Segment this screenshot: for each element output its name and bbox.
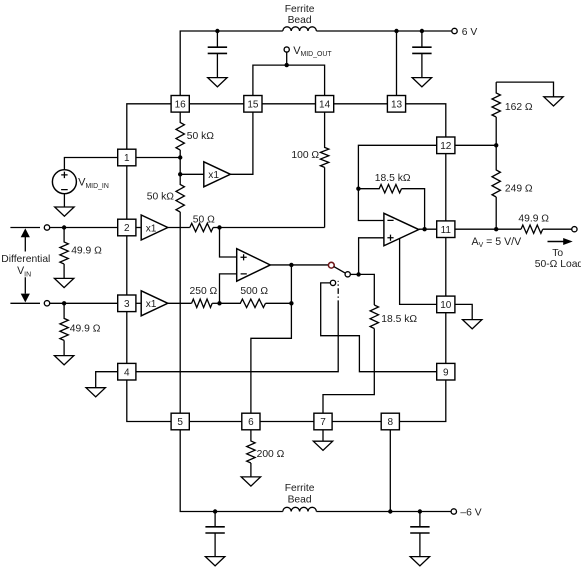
op-amp U2 (output power stage) <box>384 213 419 246</box>
terminal VMID_OUT <box>284 47 289 52</box>
terminal input VIN- (lower) <box>44 301 49 306</box>
svg-text:Differential: Differential <box>1 254 50 265</box>
wire OPS disable to pin 10 <box>400 238 437 304</box>
junction rail at bypass cap C3 <box>213 509 217 513</box>
wire 50 ohm to node A <box>213 227 219 229</box>
ground below VMID_IN <box>55 207 74 216</box>
wire pin 4 to ground (left) <box>96 372 118 388</box>
wire pin 13 to +6V rail <box>396 31 398 96</box>
switch throw contact (to OPS +) <box>345 272 350 277</box>
pin 14 <box>316 96 334 113</box>
wire pin 4 down to pin 5 <box>127 380 171 422</box>
ground below C2 <box>412 78 431 87</box>
terminal output to load <box>572 227 577 232</box>
ground below C4 <box>410 557 429 566</box>
wire pin 11 to 49.9 ohm output <box>455 228 521 230</box>
ground below C3 <box>205 557 224 566</box>
differential VIN double-headed arrow <box>21 228 30 302</box>
resistor R 200 ohm (below pin 6) <box>247 430 255 477</box>
pin 2 <box>118 219 136 236</box>
terminal input VIN+ (upper) <box>44 225 49 230</box>
resistor R 249 ohm <box>492 145 500 229</box>
resistor R 49.9 ohm (lower input termination) <box>60 303 68 355</box>
junction feedback node of middle op-amp <box>289 301 293 305</box>
wire pin 12 to pin 11 <box>445 154 447 221</box>
junction node B (250/500 ohm at op-amp -) <box>217 301 221 305</box>
svg-text:250 Ω: 250 Ω <box>190 286 218 297</box>
wire pin-16 row to left column corner <box>127 104 171 149</box>
pin 6 <box>242 413 260 430</box>
wire x1 output to 250 ohm <box>168 302 192 304</box>
resistor R 50 ohm <box>190 223 213 231</box>
ground right of pin 10 <box>463 320 482 329</box>
wire pin 1 to divider column <box>136 157 180 159</box>
wire pin 3 to x1 input <box>136 302 141 304</box>
wire pin 7 to pin 8 <box>332 421 381 423</box>
resistor R 18.5 kohm (feedback) <box>358 185 424 230</box>
junction rail at pin 8 column <box>388 509 392 513</box>
wire pin 13 to pin 12 <box>406 104 446 137</box>
wire VMID_OUT stub down <box>286 52 288 65</box>
wire lower input to pin 3 <box>50 302 118 304</box>
wire pin 10 to pin 9 <box>445 313 447 364</box>
ground below upper 49.9 ohm <box>54 278 73 287</box>
source VMID_IN (sine/dc source circle) <box>52 170 76 194</box>
wire pin 3 to pin 4 <box>126 312 128 364</box>
wire +6V rail right segment <box>316 30 451 32</box>
resistor R 250 ohm <box>192 299 213 307</box>
wire op-amp output to switch pole <box>270 264 328 266</box>
wire pin 2 to x1 input <box>136 227 141 229</box>
resistor R 162 ohm <box>492 82 500 145</box>
svg-text:Ferrite: Ferrite <box>285 483 315 494</box>
svg-text:49.9 Ω: 49.9 Ω <box>518 214 549 225</box>
wire pin 10 to ground (right) <box>455 304 472 319</box>
terminal -6V <box>451 509 456 514</box>
capacitor C1 (top left bypass) <box>216 31 218 47</box>
svg-text:x1: x1 <box>146 223 157 234</box>
junction switch output node <box>356 272 360 276</box>
wire switch node to 18.5 kohm (vertical) <box>359 274 375 305</box>
wire pin 2 to pin 3 <box>126 236 128 295</box>
wire pin 14 to pin 13 <box>334 103 388 105</box>
wire -6V rail right segment <box>316 511 451 513</box>
wire pin 11 to pin 10 <box>445 238 447 297</box>
svg-text:162 Ω: 162 Ω <box>505 102 533 113</box>
capacitor C4 (bottom right bypass) <box>419 512 421 527</box>
wire node A down to op-amp + input <box>220 228 237 258</box>
ground left of pin 4 <box>86 388 105 397</box>
pin 7 <box>314 413 332 430</box>
wire VMID_IN bottom to ground <box>63 194 65 207</box>
junction on rail at bypass cap C1 <box>215 29 219 33</box>
wire pin 15 to pin 14 <box>262 103 316 105</box>
junction on rail at bypass cap C2 <box>420 29 424 33</box>
switch pole contact (red) <box>328 262 334 268</box>
junction node A (50 ohm / 100 ohm / op-amp +) <box>217 225 221 229</box>
pin 9 <box>437 363 455 380</box>
ground below 200 ohm <box>241 477 260 486</box>
ferrite bead FB2 (bottom) <box>283 507 317 511</box>
junction OPS feedback node <box>356 187 360 191</box>
pin 12 <box>437 137 455 154</box>
wire pin 7 to ground below <box>322 430 324 441</box>
pin 5 <box>171 413 189 430</box>
op-amp buffer x1 (pin 2 input) <box>141 215 168 240</box>
resistor R 49.9 ohm (upper input termination) <box>60 228 68 279</box>
ground below lower 49.9 ohm <box>54 356 73 365</box>
pin 8 <box>381 413 399 430</box>
wire +6V rail left segment and drop to pin 16 <box>180 31 283 96</box>
wire pin 12 to gain divider <box>455 144 496 146</box>
resistor R 18.5 kohm (vertical) <box>370 305 378 329</box>
svg-text:50 kΩ: 50 kΩ <box>147 192 174 203</box>
resistor R 50 kohm (upper divider) <box>176 112 184 157</box>
svg-text:x1: x1 <box>208 170 219 181</box>
svg-text:6: 6 <box>248 417 254 428</box>
wire 49.9 ohm to output terminal <box>543 228 572 230</box>
op-amp buffer x1 (pin 3 input) <box>141 291 168 316</box>
wire pin 4 row to switch control (solid part) <box>136 306 338 372</box>
svg-text:100 Ω: 100 Ω <box>291 150 319 161</box>
wire pin 8 down to -6V rail <box>389 430 391 512</box>
svg-text:Bead: Bead <box>288 15 312 26</box>
resistor R 500 ohm <box>220 299 266 307</box>
svg-text:3: 3 <box>124 299 130 310</box>
svg-text:16: 16 <box>175 99 187 110</box>
wire OPS output to pin 11 <box>419 228 437 230</box>
capacitor C2 (top right bypass) <box>421 31 423 47</box>
pin 3 <box>118 295 136 312</box>
svg-text:13: 13 <box>391 99 403 110</box>
resistor R 50 kohm (lower divider) <box>176 174 184 212</box>
wire switch node to OPS + input <box>359 238 384 275</box>
wire alternate throw to pin 9 <box>321 283 437 372</box>
svg-text:Ferrite: Ferrite <box>285 4 315 15</box>
ferrite bead FB1 (top) <box>283 27 317 31</box>
junction gain divider top <box>494 143 498 147</box>
wire pin 5 down to -6V rail <box>180 430 283 512</box>
svg-text:–6 V: –6 V <box>460 507 481 518</box>
junction rail at bypass cap C4 <box>418 509 422 513</box>
junction op-amp output / feedback <box>289 263 293 267</box>
pin 10 <box>437 296 455 313</box>
wire throw contact to junction <box>350 273 358 275</box>
wire upper input to pin 2 <box>50 227 118 229</box>
svg-text:7: 7 <box>320 417 326 428</box>
capacitor C3 (bottom left bypass) <box>214 512 216 527</box>
svg-text:To: To <box>552 248 563 259</box>
pin 16 <box>171 96 189 113</box>
svg-text:249 Ω: 249 Ω <box>505 183 533 194</box>
junction divider at pin-1 row <box>178 155 182 159</box>
junction lower input at 49.9 ohm <box>62 301 66 305</box>
wire pin 12 to OPS - input <box>358 145 436 220</box>
wire 500 ohm to feedback node <box>266 302 292 304</box>
wire VMID_OUT bus to pins 15 and 14 <box>253 65 325 95</box>
svg-text:50 kΩ: 50 kΩ <box>187 131 214 142</box>
wire pin 16 to pin 15 <box>189 103 244 105</box>
svg-text:Bead: Bead <box>288 495 312 506</box>
svg-text:11: 11 <box>441 225 452 236</box>
switch alternate throw contact <box>330 280 335 285</box>
svg-text:15: 15 <box>247 99 259 110</box>
svg-text:4: 4 <box>124 367 130 378</box>
junction OPS output / feedback <box>422 227 426 231</box>
svg-text:500 Ω: 500 Ω <box>240 286 268 297</box>
arrow to load <box>548 238 573 245</box>
pin 1 <box>118 149 136 166</box>
wire node A to 100 ohm column <box>220 227 325 229</box>
differential VIN lower tick bar <box>10 302 40 304</box>
wire pin 1 to pin 2 <box>126 166 128 219</box>
svg-text:8: 8 <box>388 417 394 428</box>
junction divider at buffer tap <box>178 172 182 176</box>
svg-text:1: 1 <box>124 153 130 164</box>
wire 250 ohm to node B <box>212 302 219 304</box>
wire VMID_IN top to pin 1 <box>64 158 117 170</box>
resistor R 49.9 ohm (output) <box>521 225 543 233</box>
pin 11 <box>437 221 455 238</box>
svg-text:9: 9 <box>443 367 449 378</box>
svg-text:14: 14 <box>319 99 331 110</box>
wire 18.5 kohm down to pin 7 <box>323 329 374 414</box>
wire feedback node down to pin 6 <box>251 265 292 413</box>
differential VIN upper tick bar <box>10 227 40 229</box>
svg-text:5: 5 <box>177 417 183 428</box>
wire pin 6 to pin 7 <box>260 421 314 423</box>
svg-text:200 Ω: 200 Ω <box>257 449 285 460</box>
pin 13 <box>387 96 405 113</box>
ground below pin 7 <box>313 441 332 450</box>
junction VMID_OUT node <box>285 63 289 67</box>
op-amp buffer x1 (midscale) <box>204 162 231 187</box>
wire divider segment to buffer tap <box>179 158 181 175</box>
svg-text:2: 2 <box>124 223 130 234</box>
svg-text:18.5 kΩ: 18.5 kΩ <box>375 173 411 184</box>
svg-text:6 V: 6 V <box>462 27 478 38</box>
svg-text:49.9 Ω: 49.9 Ω <box>71 246 102 257</box>
pin 15 <box>244 96 262 113</box>
wire pin 9 down to pin 8 <box>399 380 445 422</box>
wire buffer tap to x1 input <box>180 173 204 175</box>
op-amp U1 (difference stage) <box>237 249 271 282</box>
svg-text:50-Ω Load: 50-Ω Load <box>535 259 581 270</box>
svg-text:18.5 kΩ: 18.5 kΩ <box>381 314 417 325</box>
junction on rail at pin 13 column <box>394 29 398 33</box>
wire x1 output to 50 ohm <box>168 227 190 229</box>
wire x1 output up to pin 15 <box>230 112 253 174</box>
wire pin 5 to pin 6 <box>189 421 242 423</box>
resistor R 100 ohm (from pin 14) <box>320 112 328 227</box>
junction output node at 249 ohm <box>494 227 498 231</box>
ground below C1 <box>208 78 227 87</box>
svg-text:x1: x1 <box>146 299 157 310</box>
wire divider column down to pin 5 (crosses rows without connecting) <box>179 212 181 413</box>
svg-text:50 Ω: 50 Ω <box>193 214 215 225</box>
terminal +6V <box>452 28 457 33</box>
wire node B up to op-amp - input <box>220 274 237 303</box>
switch control linkage (dash-dot) <box>337 281 339 306</box>
ground top right <box>544 97 563 106</box>
switch lever <box>334 267 345 274</box>
junction upper input at 49.9 ohm <box>62 225 66 229</box>
svg-text:10: 10 <box>440 300 452 311</box>
wire 162 ohm top to ground <box>496 82 553 97</box>
svg-text:49.9 Ω: 49.9 Ω <box>70 324 101 335</box>
svg-text:12: 12 <box>440 141 452 152</box>
pin 4 <box>118 363 136 380</box>
